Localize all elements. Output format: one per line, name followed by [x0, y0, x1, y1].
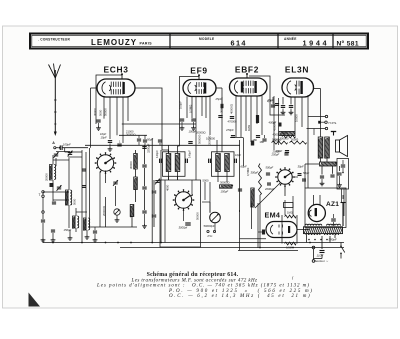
blob cap right	[331, 131, 336, 133]
capacitor osc 1	[82, 168, 86, 170]
wires S3	[259, 195, 261, 248]
tube EL3N	[282, 78, 314, 97]
wire y227 rail	[88, 226, 137, 228]
svg-text:4000: 4000	[166, 184, 170, 191]
svg-text:500000: 500000	[198, 134, 202, 144]
divider taps	[321, 166, 323, 175]
svg-text:50pF: 50pF	[303, 171, 309, 175]
wire y124	[122, 123, 196, 125]
svg-text:25pF: 25pF	[275, 149, 282, 153]
trimmer gang CV1	[113, 181, 117, 183]
svg-text:300pF: 300pF	[251, 170, 259, 174]
capacitor S3 left	[266, 172, 270, 174]
power transformer	[304, 227, 343, 234]
ground left mid	[69, 230, 71, 236]
svg-text:5000: 5000	[203, 179, 209, 183]
MF1 secondary	[175, 154, 180, 172]
switch box frame	[160, 180, 201, 247]
dark res EBF2	[251, 141, 254, 146]
grid cap ECH3	[121, 75, 123, 79]
svg-text:Nº 581: Nº 581	[337, 41, 359, 48]
wires output	[320, 158, 322, 162]
svg-text:30000: 30000	[220, 105, 224, 113]
wire y137	[230, 137, 243, 139]
divider tap3	[339, 166, 341, 171]
svg-text:P.U.: P.U.	[208, 234, 214, 238]
rotary band switch S1	[97, 155, 113, 171]
chassis rail 1	[43, 242, 344, 244]
svg-text:Secteur ∼: Secteur ∼	[315, 259, 329, 263]
svg-text:0,5MΩ: 0,5MΩ	[246, 168, 250, 176]
svg-text:50000: 50000	[104, 108, 108, 116]
PU terminals	[207, 230, 209, 232]
svg-text:EM4: EM4	[265, 211, 281, 220]
capacitor EBF2 k2	[230, 116, 234, 118]
wire S1 stem	[105, 171, 107, 184]
svg-text:LEMOUZY: LEMOUZY	[91, 38, 137, 47]
terminal T earth	[42, 191, 44, 193]
wire osc vertical 3	[89, 148, 91, 227]
resistor 05M EM4	[285, 242, 297, 245]
coil L3 antenna	[73, 216, 76, 228]
jumper left 6	[65, 151, 82, 153]
filter cap mid	[331, 218, 336, 220]
wire EBF2 right col 1	[273, 96, 275, 150]
svg-text:470pF: 470pF	[226, 128, 234, 132]
MF1 cap left	[159, 159, 161, 163]
tube EBF2	[230, 78, 268, 96]
svg-text:T: T	[39, 193, 41, 197]
divider resistor	[320, 162, 337, 166]
capacitor EBF2 d	[256, 135, 260, 137]
wires S2 area	[202, 201, 210, 203]
wire osc vertical 2	[85, 152, 87, 230]
wires transformer bottom	[306, 235, 308, 243]
capacitor c mid3	[142, 164, 146, 166]
capacitor left 1	[50, 183, 54, 187]
svg-text:P.O. — 900 et 1325 » ( 566: P.O. — 900 et 1325 » ( 566 et 225 m)	[168, 289, 314, 294]
svg-text:50000: 50000	[291, 137, 299, 141]
HPS terminal	[318, 121, 321, 124]
svg-text:4000: 4000	[273, 133, 279, 137]
tube ECH3	[97, 79, 135, 97]
svg-text:30000Ω: 30000Ω	[126, 133, 136, 137]
wire S1 down	[99, 172, 101, 227]
svg-text:300000: 300000	[280, 137, 289, 141]
grounds mid	[144, 224, 146, 226]
svg-text:MODELE: MODELE	[199, 37, 214, 41]
svg-text:10000: 10000	[295, 114, 299, 122]
svg-text:ECH3: ECH3	[103, 65, 128, 75]
svg-text:EL3N: EL3N	[285, 65, 309, 75]
svg-text:ANNÉE: ANNÉE	[284, 36, 297, 41]
svg-text:3250pF: 3250pF	[147, 143, 151, 153]
svg-text:5000: 5000	[99, 109, 103, 116]
tube EM4	[266, 222, 297, 238]
capacitor EF9 b	[188, 141, 192, 143]
resistor 30000 hatched 1	[134, 154, 138, 170]
capacitor left 3	[51, 229, 55, 231]
svg-text:O.C. — 6,2 et 14,3 MHz ( 45 e: O.C. — 6,2 et 14,3 MHz ( 45 et 21 m)	[169, 294, 311, 299]
wire EBF2 right col 2	[278, 98, 280, 145]
wire x152 long	[151, 138, 153, 243]
svg-text:30000: 30000	[129, 161, 133, 169]
capacitor EBF2 k1	[218, 115, 222, 117]
trimmer CA1	[54, 153, 58, 155]
terminal out 2	[325, 127, 327, 129]
svg-text:10pF: 10pF	[235, 153, 241, 157]
svg-text:110V: 110V	[317, 254, 325, 258]
capacitor 5250pF	[142, 146, 146, 148]
capacitor ECH3 g	[117, 143, 121, 145]
resistor 300000 EL3N	[279, 132, 295, 136]
wires left mesh	[52, 155, 54, 165]
links MF1 to box	[168, 176, 170, 180]
title block divider 1	[169, 34, 171, 48]
capacitor mid 2	[143, 139, 147, 141]
svg-text:50000pF: 50000pF	[204, 224, 215, 228]
rotary band switch S2	[175, 192, 191, 208]
svg-text:3000pf: 3000pf	[179, 226, 189, 230]
rail junction dots	[81, 242, 83, 244]
speaker coil box	[337, 159, 349, 190]
capacitor osc 2	[82, 185, 86, 187]
capacitor c mid4	[142, 186, 146, 188]
wire x243 v	[243, 138, 245, 167]
svg-text:140pF: 140pF	[155, 150, 159, 158]
coil L1 antenna	[50, 165, 53, 181]
MF1 primary	[166, 154, 171, 172]
capacitor EF9 k2	[191, 118, 195, 120]
wire EM4 anode	[297, 229, 309, 231]
wire earth down	[42, 240, 44, 243]
svg-text:Schéma général du récepteur 61: Schéma général du récepteur 614.	[147, 272, 239, 278]
wires ECH3 down	[103, 97, 105, 119]
resistor hatched 3	[130, 205, 134, 217]
black corner triangle	[29, 293, 41, 307]
trimmer CA2	[68, 152, 72, 154]
wires EM4 left	[251, 203, 253, 229]
capacitor EL3N k1	[281, 105, 285, 107]
MF2 cap left	[208, 159, 210, 163]
MF1 wires	[168, 145, 170, 154]
svg-text:20000Ω: 20000Ω	[196, 130, 205, 134]
svg-text:40000Ω: 40000Ω	[230, 104, 234, 114]
capacitor S3 b	[267, 182, 271, 184]
capacitor EL3N k2	[289, 105, 293, 107]
capacitor 3000pF	[185, 222, 191, 224]
wire EF9 anode	[216, 87, 222, 89]
svg-text:50000: 50000	[196, 212, 200, 220]
capacitor ECH3 cathode	[96, 119, 100, 121]
svg-text:50pF: 50pF	[147, 137, 153, 141]
svg-text:500pF: 500pF	[266, 166, 274, 170]
svg-text:1MΩ: 1MΩ	[247, 125, 251, 131]
svg-text:PARIS: PARIS	[140, 41, 153, 45]
jumper left 7	[70, 156, 82, 158]
jumper left 5	[56, 151, 70, 153]
wires AZ1 top	[313, 195, 315, 206]
wire osc vertical 1	[81, 150, 83, 243]
mains switch	[340, 243, 342, 246]
MF2 primary	[216, 154, 221, 172]
jumper left 3	[53, 199, 69, 201]
antenna	[54, 70, 56, 134]
capacitor left 2	[52, 201, 56, 203]
terminal left	[42, 211, 44, 213]
IF transformer MF2 frame	[212, 152, 235, 177]
svg-text:0,5MΩ: 0,5MΩ	[189, 105, 193, 113]
svg-text:AZ1: AZ1	[326, 201, 339, 208]
svg-text:. CONSTRUCTEUR: . CONSTRUCTEUR	[38, 37, 70, 41]
title block divider 3	[332, 34, 334, 48]
wire ECH3 left feeds	[91, 87, 98, 89]
wires speaker box down	[341, 189, 343, 203]
svg-text:400pF: 400pF	[269, 120, 277, 124]
capacitor 100pF antenna	[59, 145, 61, 150]
jumper left 4	[76, 211, 87, 213]
svg-text:H.P.S.: H.P.S.	[329, 121, 338, 125]
EM4 grid blob	[262, 230, 265, 235]
svg-text:30000Ω: 30000Ω	[220, 181, 229, 185]
capacitor bottom left 1	[93, 230, 97, 232]
terminal strip dots	[308, 239, 310, 241]
svg-text:100000: 100000	[206, 136, 215, 140]
svg-text:1MΩ: 1MΩ	[287, 210, 293, 214]
svg-text:140pF: 140pF	[188, 150, 192, 158]
volume potentiometer	[210, 212, 221, 223]
antenna lead ticks	[54, 99, 57, 101]
grid cap EBF2	[246, 75, 248, 78]
capacitor EF9 k1	[180, 118, 184, 120]
wires mid col	[144, 145, 146, 164]
MF1 cap right	[185, 159, 187, 163]
title block outer frame	[30, 34, 368, 49]
svg-text:100pF: 100pF	[63, 143, 71, 147]
capacitor mid 1	[137, 138, 141, 140]
svg-text:0,5M: 0,5M	[286, 245, 293, 249]
rotary switch S3	[278, 170, 292, 184]
wire y135	[119, 134, 147, 136]
trimmer MF1 bottom	[155, 180, 159, 182]
svg-text:EF9: EF9	[190, 66, 207, 76]
wire y145 bus	[85, 144, 240, 146]
capacitor below MF2	[238, 188, 242, 190]
svg-text:30000: 30000	[93, 108, 97, 116]
wires EF9 down	[186, 97, 188, 119]
output transformer	[318, 137, 323, 158]
svg-text:5000: 5000	[73, 198, 77, 205]
wire antenna input	[63, 147, 89, 149]
terminal out 1	[325, 115, 327, 117]
svg-text:10pF: 10pF	[100, 132, 106, 136]
capacitor S3 r2	[302, 178, 306, 180]
svg-text:470000: 470000	[228, 120, 237, 124]
svg-text:150pF: 150pF	[221, 189, 229, 193]
wire EF9 grid route	[180, 75, 200, 146]
capacitor c mid5	[142, 210, 146, 212]
wire EBF2 grid route	[249, 76, 285, 115]
tube EF9	[183, 80, 216, 97]
capacitor c mid7	[152, 214, 156, 216]
capacitor c mid6	[152, 190, 156, 192]
wires EL3N down	[282, 97, 284, 104]
svg-text:Les points d'alignement sont :: Les points d'alignement sont : O.C. — 74…	[96, 284, 310, 289]
resistor 30000 hatched 2	[134, 177, 138, 190]
capacitor bus 1	[158, 139, 162, 141]
small rect above EM4	[284, 203, 294, 208]
mains terminals	[312, 246, 315, 249]
ground osc	[86, 230, 88, 235]
divider tap2	[330, 174, 334, 176]
svg-text:100pF: 100pF	[179, 101, 183, 109]
jumper left 2	[43, 191, 69, 193]
coil L2 antenna	[66, 190, 69, 205]
resistor blob EBF2	[256, 115, 259, 123]
speaker	[336, 140, 340, 152]
chassis rail 2	[120, 247, 344, 249]
electrolytic cap	[342, 203, 344, 226]
padder pot	[114, 209, 120, 215]
svg-text:614: 614	[231, 38, 247, 47]
IF transformer MF1 frame	[163, 152, 186, 177]
chassis rail 3	[238, 250, 298, 252]
MF2 wires	[221, 88, 223, 152]
MF2 cap right	[234, 159, 236, 163]
svg-text:30pF: 30pF	[298, 165, 304, 169]
wire x239 long	[239, 140, 241, 212]
EM4 box lines	[281, 215, 283, 244]
svg-text:A: A	[52, 141, 55, 145]
svg-text:20000: 20000	[45, 173, 49, 181]
wire EL3N anode	[314, 88, 321, 90]
wire divider left	[305, 163, 320, 165]
wires EM4 box up	[284, 200, 286, 215]
coil L4 oscillator	[84, 218, 87, 230]
title block divider 2	[277, 34, 279, 48]
PSU box frame	[305, 188, 346, 228]
capacitor S3 r1	[298, 173, 302, 175]
wire ECH3 grid route	[96, 75, 122, 124]
capacitor mains	[320, 250, 325, 252]
svg-text:15pF: 15pF	[101, 136, 107, 140]
hatched bar left S3	[251, 188, 254, 207]
jumper left 1	[53, 159, 69, 161]
svg-text:250pF: 250pF	[271, 153, 280, 157]
svg-text:1944: 1944	[303, 39, 330, 48]
wires EBF2 down	[235, 96, 237, 137]
wires MF2 down	[209, 182, 211, 213]
ground padder	[116, 215, 118, 218]
svg-text:25pF: 25pF	[215, 97, 222, 101]
grid cap EF9	[198, 76, 200, 80]
rectifier tube AZ1	[308, 204, 325, 221]
MF2 secondary	[225, 154, 230, 172]
wire ECH3 anode	[135, 88, 169, 154]
svg-text:180: 180	[253, 138, 258, 142]
